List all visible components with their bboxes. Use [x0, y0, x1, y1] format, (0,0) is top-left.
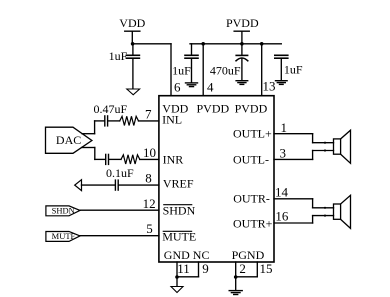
svg-text:PVDD: PVDD — [197, 102, 230, 116]
svg-text:13: 13 — [263, 79, 276, 94]
svg-text:1uF: 1uF — [109, 49, 128, 63]
svg-text:4: 4 — [207, 80, 214, 95]
svg-text:INR: INR — [163, 153, 184, 167]
svg-text:1: 1 — [281, 120, 288, 135]
svg-text:OUTL+: OUTL+ — [233, 126, 272, 140]
svg-text:PVDD: PVDD — [235, 102, 268, 116]
svg-text:15: 15 — [260, 261, 273, 276]
svg-text:PVDD: PVDD — [226, 16, 259, 30]
svg-text:VREF: VREF — [163, 177, 194, 191]
svg-text:DAC: DAC — [56, 133, 81, 147]
svg-text:11: 11 — [177, 261, 190, 276]
svg-text:3: 3 — [280, 145, 287, 160]
svg-text:7: 7 — [145, 106, 152, 121]
svg-text:0.47uF: 0.47uF — [94, 102, 128, 116]
svg-text:0.1uF: 0.1uF — [106, 166, 134, 180]
svg-text:SHDN: SHDN — [52, 205, 75, 215]
svg-text:1uF: 1uF — [284, 63, 303, 77]
svg-text:12: 12 — [143, 196, 156, 211]
svg-text:8: 8 — [145, 171, 152, 186]
svg-text:470uF: 470uF — [210, 64, 241, 78]
svg-text:SHDN: SHDN — [163, 203, 196, 217]
svg-text:5: 5 — [146, 221, 153, 236]
svg-text:9: 9 — [202, 261, 209, 276]
svg-text:16: 16 — [275, 209, 289, 224]
svg-text:VDD: VDD — [119, 16, 145, 30]
svg-text:OUTR+: OUTR+ — [233, 217, 273, 231]
svg-text:MUTE: MUTE — [52, 231, 76, 241]
svg-text:OUTR-: OUTR- — [233, 191, 270, 205]
svg-text:1uF: 1uF — [172, 64, 191, 78]
svg-text:6: 6 — [174, 80, 181, 95]
svg-text:GND NC: GND NC — [164, 248, 210, 262]
svg-text:14: 14 — [275, 184, 289, 199]
svg-text:PGND: PGND — [232, 248, 265, 262]
svg-text:2: 2 — [239, 261, 246, 276]
svg-text:OUTL-: OUTL- — [233, 153, 269, 167]
svg-text:INL: INL — [162, 113, 182, 127]
svg-text:10: 10 — [143, 145, 156, 160]
